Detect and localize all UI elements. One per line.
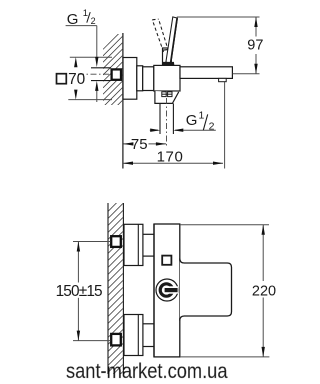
svg-text:1: 1 <box>83 8 88 19</box>
svg-text:70: 70 <box>68 71 85 88</box>
svg-text:G: G <box>67 11 79 28</box>
svg-text:150±15: 150±15 <box>56 283 103 300</box>
svg-text:G: G <box>186 112 198 129</box>
svg-text:75: 75 <box>131 136 148 153</box>
svg-text:97: 97 <box>247 38 263 54</box>
svg-text:170: 170 <box>157 149 183 166</box>
svg-text:sant-market.com.ua: sant-market.com.ua <box>66 358 228 383</box>
svg-text:220: 220 <box>252 284 276 300</box>
svg-text:1: 1 <box>199 110 205 122</box>
svg-text:2: 2 <box>209 120 215 132</box>
svg-text:2: 2 <box>91 16 96 26</box>
